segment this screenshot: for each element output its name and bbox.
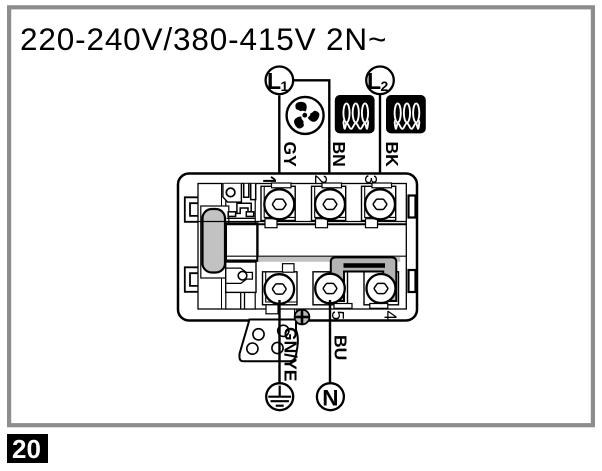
wire ground screw to earth symbol: [278, 300, 280, 385]
left clip bracket top: [185, 197, 199, 222]
terminal screw 5 head: [315, 274, 345, 304]
clamp bracket under hole: [228, 203, 254, 216]
lever slot: [201, 206, 229, 278]
terminal block inner housing: [198, 184, 406, 310]
hole box with chamfer: [223, 184, 242, 202]
terminal screw 3: [362, 183, 396, 228]
node L2: [366, 67, 394, 95]
molding slot below keyhole box: [241, 293, 245, 309]
center window box: [226, 224, 258, 261]
node L1: [266, 67, 294, 95]
lower keyhole box: [226, 262, 256, 292]
heating element icon BK: [386, 95, 426, 133]
molding slots top-right: [244, 184, 256, 200]
terminal 4 plate: [364, 272, 399, 309]
bottom row shelf line: [226, 255, 406, 257]
divider line upper: [198, 221, 406, 223]
right clip bottom: [409, 270, 416, 292]
svg-text:220-240V/380-415V 2N~: 220-240V/380-415V 2N~: [20, 21, 387, 57]
svg-text:BU: BU: [331, 335, 351, 360]
terminal screw 1: [261, 183, 295, 228]
svg-text:BK: BK: [382, 142, 402, 168]
terminal screw ground: [263, 264, 298, 314]
fan motor icon: [287, 97, 324, 134]
page number 20: [7, 434, 48, 464]
terminal screw 4 head: [367, 274, 396, 303]
svg-text:2: 2: [381, 78, 389, 94]
node N: [317, 383, 344, 410]
gray lever bar: [203, 209, 226, 273]
wire L1 to terminal 1: [278, 95, 280, 192]
svg-text:2: 2: [311, 175, 331, 185]
hole circle top: [226, 188, 235, 197]
terminal screw 2: [312, 183, 346, 228]
svg-text:5: 5: [328, 311, 348, 321]
svg-text:20: 20: [12, 434, 41, 464]
svg-text:BN: BN: [329, 142, 349, 167]
wire L2 to terminal 3: [379, 95, 381, 192]
svg-text:3: 3: [361, 175, 381, 185]
wire terminal 5 to N: [329, 300, 331, 383]
clamp base line: [227, 217, 256, 219]
chassis screw: [295, 310, 310, 325]
svg-text:L: L: [367, 68, 381, 94]
wire L1 to terminal 2: [294, 80, 329, 192]
svg-text:1: 1: [281, 78, 289, 94]
svg-text:GN/YE: GN/YE: [281, 327, 301, 381]
divider line lower: [226, 223, 406, 225]
middle column channel: [226, 184, 255, 310]
middle column left guide: [221, 184, 223, 310]
ground plate with holes: [240, 309, 298, 361]
shelf front face shading: [258, 257, 400, 262]
svg-text:GY: GY: [280, 142, 300, 168]
svg-text:4: 4: [381, 311, 401, 321]
terminal 5 plate: [313, 272, 352, 309]
jumper bracket terminals 4-5: [331, 257, 397, 301]
right clip top: [409, 196, 416, 218]
svg-text:L: L: [267, 68, 281, 94]
heating element icon BN: [335, 95, 375, 133]
earth symbol: [266, 383, 293, 410]
terminal block outer housing: [178, 174, 417, 321]
left clip bracket bottom: [185, 267, 199, 292]
svg-text:N: N: [322, 385, 338, 410]
pin number 1: [263, 177, 276, 181]
jumper metal bar: [344, 263, 386, 268]
